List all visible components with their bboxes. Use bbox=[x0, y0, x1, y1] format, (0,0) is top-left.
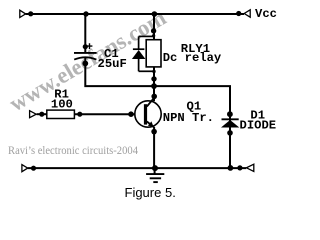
svg-text:Vcc: Vcc bbox=[255, 7, 277, 21]
svg-text:NPN Tr.: NPN Tr. bbox=[163, 111, 214, 125]
svg-text:Ravi’s electronic circuits-200: Ravi’s electronic circuits-2004 bbox=[8, 143, 138, 157]
svg-text:100: 100 bbox=[51, 98, 73, 112]
svg-text:Dc relay: Dc relay bbox=[163, 51, 222, 65]
svg-text:25uF: 25uF bbox=[98, 57, 127, 71]
svg-text:DIODE: DIODE bbox=[240, 118, 277, 132]
svg-text:Figure 5.: Figure 5. bbox=[125, 185, 176, 200]
